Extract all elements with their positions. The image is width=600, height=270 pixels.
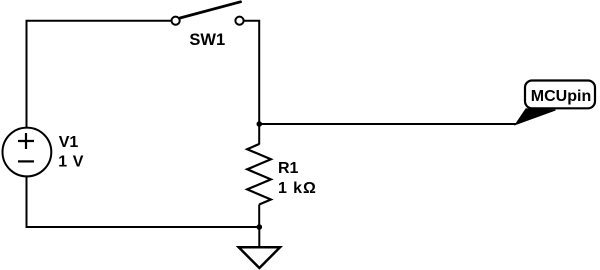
wire: node A to MCUpin flag xyxy=(259,123,516,125)
resistor R1 xyxy=(247,144,271,205)
wire: bottom rail from node B to V1 negative terminal xyxy=(27,176,260,227)
svg-text:SW1: SW1 xyxy=(189,31,225,49)
wire: resistor R1 bottom lead to node B xyxy=(258,205,260,228)
node A junction dot xyxy=(257,121,263,127)
node B junction dot xyxy=(257,224,263,230)
svg-text:1 kΩ: 1 kΩ xyxy=(278,180,317,197)
wire: SW1 right terminal to top-right corner down to node A xyxy=(244,21,259,145)
svg-text:V1: V1 xyxy=(59,134,79,151)
svg-text:1 V: 1 V xyxy=(58,153,84,170)
voltage source V1 xyxy=(3,128,52,177)
ground xyxy=(239,227,280,268)
svg-text:R1: R1 xyxy=(278,160,299,177)
net flag MCUpin xyxy=(515,81,595,125)
wire: V1 positive terminal up left rail and across top to SW1 xyxy=(27,21,172,128)
switch SW1 xyxy=(172,2,244,25)
svg-text:MCUpin: MCUpin xyxy=(531,88,591,105)
